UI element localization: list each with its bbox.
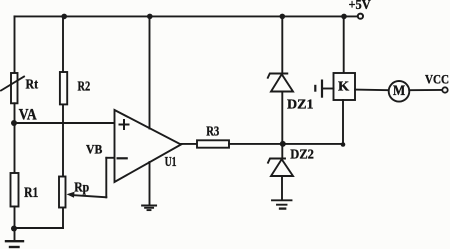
wire VA node down to R1 xyxy=(14,123,16,173)
svg-text:DZ2: DZ2 xyxy=(290,148,314,163)
svg-text:+5V: +5V xyxy=(349,0,371,13)
wire motor M to VCC terminal xyxy=(409,89,442,91)
wire R2 top to rail xyxy=(62,16,64,72)
bottom-left node junction dot xyxy=(11,226,17,232)
op-amp plus sign xyxy=(120,120,129,129)
junction dot rail/relay K xyxy=(341,14,347,20)
ground (DZ2) xyxy=(272,200,292,208)
potentiometer Rp wiper arrow xyxy=(67,192,107,198)
zener diode DZ2 xyxy=(268,159,293,177)
wire Rp bottom xyxy=(62,208,64,229)
wire relay K bottom to output line xyxy=(342,100,344,144)
svg-text:Rt: Rt xyxy=(26,77,39,92)
potentiometer Rp xyxy=(59,177,66,208)
wire R1 bottom to bottom-left node xyxy=(14,207,16,229)
op-amp minus sign xyxy=(118,157,127,159)
svg-text:M: M xyxy=(393,83,405,99)
junction dot output/relay corner xyxy=(341,142,346,147)
wire DZ2 to ground xyxy=(281,176,283,199)
svg-text:DZ1: DZ1 xyxy=(287,97,314,112)
wire op-amp negative supply to ground xyxy=(149,162,151,205)
wire DZ node to DZ2 xyxy=(281,144,283,159)
wire left rail top (rail to Rt) xyxy=(14,16,16,73)
wire bottom (R1 to Rp) xyxy=(15,227,64,229)
wire Rp top to VA line and R2 bottom xyxy=(62,104,64,176)
junction dot rail/op-amp supply xyxy=(147,14,153,20)
svg-text:VCC: VCC xyxy=(425,72,449,87)
wire DZ1 to DZ node xyxy=(281,92,283,144)
resistor R1 xyxy=(11,173,19,207)
relay K contact bar xyxy=(321,81,323,97)
svg-text:VB: VB xyxy=(86,142,103,157)
terminal +5V circle xyxy=(358,14,363,19)
resistor R2 xyxy=(60,72,67,104)
wire rail to relay K xyxy=(343,16,345,73)
relay coil K box xyxy=(334,73,356,100)
wire R3 to K branch xyxy=(229,143,343,145)
wire VB vertical xyxy=(105,158,107,198)
wire relay K to motor M xyxy=(355,89,389,92)
junction dot rail/DZ1 xyxy=(280,14,286,20)
wire op-amp positive supply from rail xyxy=(149,16,151,128)
wire op-amp output to R3 xyxy=(181,143,197,145)
junction dot rail/R2 xyxy=(61,14,67,20)
svg-text:K: K xyxy=(338,79,350,94)
resistor R3 xyxy=(197,140,229,147)
ground (op-amp) xyxy=(142,206,156,211)
svg-text:VA: VA xyxy=(19,106,38,123)
node VA junction dot xyxy=(11,120,17,126)
wire VA to op-amp non-inverting input xyxy=(15,122,115,124)
svg-text:R3: R3 xyxy=(206,125,219,140)
svg-text:R2: R2 xyxy=(78,80,91,95)
svg-text:R1: R1 xyxy=(24,185,38,201)
motor M circle xyxy=(389,81,410,102)
svg-text:U1: U1 xyxy=(165,155,177,170)
zener diode DZ1 xyxy=(268,74,293,92)
wire VB to op-amp inverting input xyxy=(106,157,114,159)
op-amp U1 triangle xyxy=(115,110,182,182)
svg-text:Rp: Rp xyxy=(74,180,89,195)
wire node to ground xyxy=(14,229,16,241)
ground (bottom left) xyxy=(6,241,23,247)
wire rail to DZ1 xyxy=(281,16,283,73)
terminal VCC circle xyxy=(442,87,447,92)
wire Rt bottom to node VA xyxy=(14,103,16,123)
relay K left stub wire xyxy=(322,88,334,90)
relay K contact dash xyxy=(314,86,316,91)
junction dot DZ node xyxy=(280,141,286,147)
wire top +5V rail xyxy=(15,15,359,17)
thermistor Rt xyxy=(1,73,24,103)
